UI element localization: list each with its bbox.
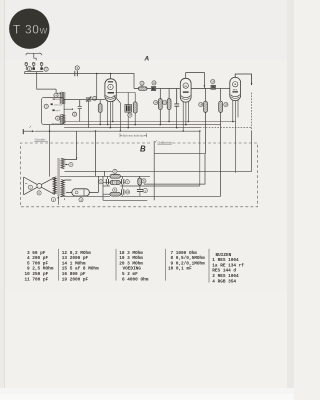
label 13 xyxy=(152,81,156,85)
svg-text:2 RES 1004: 2 RES 1004 xyxy=(212,274,239,279)
svg-text:3 50 pF: 3 50 pF xyxy=(27,251,46,256)
wire antenna bus xyxy=(25,71,44,73)
resistor 14 xyxy=(154,89,163,125)
brace and label Gelijkrichter xyxy=(155,141,173,145)
bus wires xyxy=(35,121,252,186)
svg-text:11 700 pF: 11 700 pF xyxy=(25,277,49,282)
wire primary top to feed xyxy=(64,131,76,159)
wire bus 2 xyxy=(64,124,221,126)
pickup input xyxy=(23,126,34,134)
capacitor 10 xyxy=(122,186,130,196)
filter resistor 9 xyxy=(110,180,120,184)
svg-text:12 0,2 MOhm: 12 0,2 MOhm xyxy=(62,251,91,256)
wire primary bottom rails xyxy=(64,180,71,200)
svg-text:1a RE 134 rf: 1a RE 134 rf xyxy=(212,263,244,268)
tube 1 xyxy=(96,73,135,131)
svg-text:16 800 pF: 16 800 pF xyxy=(62,272,86,277)
svg-text:langegolf: langegolf xyxy=(53,109,60,112)
svg-text:RES 144 d: RES 144 d xyxy=(212,269,236,274)
switch contact b xyxy=(52,109,54,111)
svg-text:Geruiker: Geruiker xyxy=(35,138,47,142)
capacitor 1 psu xyxy=(137,186,147,196)
filter row low wire xyxy=(103,193,122,195)
wire bus 3 xyxy=(64,127,200,129)
svg-text:8 0,5/0,5MOhm: 8 0,5/0,5MOhm xyxy=(171,256,206,261)
output transformer xyxy=(51,131,104,205)
wire choke feed xyxy=(95,131,97,176)
capacitor 16 xyxy=(174,89,179,128)
svg-text:RES: RES xyxy=(233,89,238,91)
svg-text:1 RES 1004: 1 RES 1004 xyxy=(212,258,239,263)
resistor 12 (anode resistor) xyxy=(134,81,151,90)
wire tube3 grid hook xyxy=(235,74,251,85)
power supply dashed box xyxy=(21,143,258,207)
svg-text:10 250 pF: 10 250 pF xyxy=(25,272,49,277)
label 12 xyxy=(140,81,144,87)
loudspeaker xyxy=(24,177,55,195)
tap arrow xyxy=(52,98,60,100)
resistor 19 xyxy=(219,89,228,197)
svg-text:18: 18 xyxy=(199,103,202,107)
antenna xyxy=(26,53,42,55)
svg-text:9 0,2/0,1MOhm: 9 0,2/0,1MOhm xyxy=(171,261,206,266)
wire grid bias feed xyxy=(236,131,252,171)
svg-text:16: 16 xyxy=(211,80,214,84)
wire rail lower xyxy=(60,195,110,197)
svg-text:13: 13 xyxy=(153,81,156,85)
wire left connector xyxy=(102,176,104,200)
resistor 15 xyxy=(163,89,172,122)
antenna terminal 3 xyxy=(40,62,43,70)
label 4 xyxy=(54,93,58,97)
divider 3 xyxy=(165,249,167,281)
svg-text:13 2000 pF: 13 2000 pF xyxy=(62,256,89,261)
capacitor 16 (coupling block 2) xyxy=(191,80,230,90)
resistor 5 psu xyxy=(138,176,146,186)
wire tube2 grid hook xyxy=(186,73,205,89)
divider 2 xyxy=(115,249,117,281)
svg-text:20 3 MOhm: 20 3 MOhm xyxy=(119,261,143,266)
svg-text:antennesp.: antennesp. xyxy=(52,123,60,125)
svg-text:4 200 pF: 4 200 pF xyxy=(27,256,48,261)
node label 1 xyxy=(27,67,31,71)
svg-text:VOEDING: VOEDING xyxy=(123,267,142,272)
svg-text:12: 12 xyxy=(141,81,144,85)
svg-text:14 1 MOhm: 14 1 MOhm xyxy=(62,261,86,266)
svg-text:10: 10 xyxy=(93,97,96,101)
svg-text:19 3 MOhm: 19 3 MOhm xyxy=(119,256,143,261)
wire band tap xyxy=(64,108,72,110)
label 6 xyxy=(56,116,60,120)
svg-text:A: A xyxy=(143,56,149,63)
antenna terminal 2 xyxy=(32,62,35,70)
power feed path from anode bus xyxy=(105,131,252,200)
label 10 xyxy=(93,96,97,100)
resistor beside block xyxy=(133,93,137,125)
tube 3 legs xyxy=(233,100,238,173)
node label 2 xyxy=(44,67,48,71)
tube 2 xyxy=(180,73,205,131)
wire cathode slant xyxy=(114,95,121,131)
wire terminal to coil xyxy=(37,72,56,90)
capacitor to ground xyxy=(78,100,82,122)
logo T30w xyxy=(9,9,49,49)
rectifier tube 4 xyxy=(66,176,98,202)
label 7 xyxy=(44,104,48,108)
wire varcap drop xyxy=(88,101,90,128)
wire grid dashed drop xyxy=(251,93,253,131)
label 3 xyxy=(75,66,79,70)
winding primary top 9 xyxy=(61,158,64,168)
parts table xyxy=(25,249,245,284)
capacitor 3 (series antenna cap) xyxy=(75,71,78,76)
label 9 xyxy=(69,162,73,166)
resistor 18 xyxy=(199,89,208,154)
capacitor block under tube 1 xyxy=(125,93,132,128)
svg-text:4 RGB 354: 4 RGB 354 xyxy=(212,279,236,284)
rails xyxy=(60,176,221,200)
junction dots xyxy=(95,121,234,132)
label Geruiker xyxy=(34,138,48,142)
wire primary mid tap xyxy=(64,171,104,176)
coil box xyxy=(42,89,105,177)
svg-text:19 2000 pF: 19 2000 pF xyxy=(62,277,89,282)
label 1 transformer xyxy=(51,198,55,202)
svg-text:5 2 mF: 5 2 mF xyxy=(122,272,138,277)
svg-text:15 5 af 8 MOhm: 15 5 af 8 MOhm xyxy=(62,267,99,272)
wire bus 3 dashed xyxy=(200,127,252,129)
svg-text:19: 19 xyxy=(224,103,227,107)
wire brace drop xyxy=(144,141,205,200)
svg-text:10 0,1 mF: 10 0,1 mF xyxy=(168,267,192,272)
svg-text:6 4000 Ohm: 6 4000 Ohm xyxy=(122,277,149,282)
svg-text:B: B xyxy=(140,144,146,153)
svg-text:Gelijkrichter: Gelijkrichter xyxy=(158,141,173,144)
svg-text:15: 15 xyxy=(163,101,166,105)
svg-text:9 2,5 MOhm: 9 2,5 MOhm xyxy=(27,267,54,272)
label 3 filter xyxy=(99,180,103,184)
svg-text:Afstemschakelaar: Afstemschakelaar xyxy=(121,134,146,137)
label 2 speaker xyxy=(28,185,32,189)
coil 4 (RF primary) xyxy=(61,92,65,104)
filter resistor 6 xyxy=(110,188,120,196)
label 5 xyxy=(73,112,77,116)
tube 2 legs xyxy=(183,102,188,132)
tube 3 xyxy=(230,74,253,173)
wire bus 1 xyxy=(64,121,236,123)
wire plate feed tube3 xyxy=(105,170,236,172)
variable capacitor 10 xyxy=(86,97,91,102)
label 3 speaker xyxy=(37,191,41,195)
svg-text:middengolf: middengolf xyxy=(54,104,63,107)
divider 4 xyxy=(208,249,210,283)
svg-text:10: 10 xyxy=(126,190,129,194)
capacitor 3 plates xyxy=(106,176,108,186)
wire screen tap xyxy=(116,92,136,94)
wire rail bottom xyxy=(103,199,147,201)
svg-text:18 3 MOhm: 18 3 MOhm xyxy=(119,251,143,256)
wire coil box to tube 1 grid xyxy=(64,99,105,101)
svg-text:T 30w: T 30w xyxy=(13,22,48,36)
tube 1 legs xyxy=(108,101,113,128)
winding primary bottom xyxy=(61,180,64,197)
svg-text:14: 14 xyxy=(154,101,157,105)
svg-text:7 1000 Ohm: 7 1000 Ohm xyxy=(171,251,198,256)
coil 6 (RF secondary) xyxy=(61,114,65,124)
label 4 rectifier xyxy=(79,198,83,202)
wire coil drop xyxy=(56,89,61,93)
resistor grid leak xyxy=(98,100,102,125)
wire rail mid xyxy=(103,185,110,187)
switch contact a xyxy=(51,103,53,105)
winding speaker secondary xyxy=(53,177,56,194)
core ground drop xyxy=(57,196,59,205)
label Afstemschakelaar xyxy=(120,133,147,137)
divider 1 xyxy=(58,249,60,281)
svg-text:17: 17 xyxy=(128,113,131,117)
wire tube1 grid stem xyxy=(110,74,112,80)
wire coil box bottom drop xyxy=(49,125,51,177)
capacitor 13 (coupling block) xyxy=(151,81,180,91)
filter resistor 8 xyxy=(110,169,120,178)
wire bus 4 xyxy=(35,130,199,132)
capacitor 7 xyxy=(122,176,130,186)
svg-text:5 700 pF: 5 700 pF xyxy=(27,261,48,266)
filter row mid wire xyxy=(103,182,126,184)
wire rail B+ top xyxy=(60,175,110,177)
svg-text:BUIZEN: BUIZEN xyxy=(216,253,232,258)
wire feed drop xyxy=(199,131,201,186)
antenna terminal 1 xyxy=(25,62,28,70)
